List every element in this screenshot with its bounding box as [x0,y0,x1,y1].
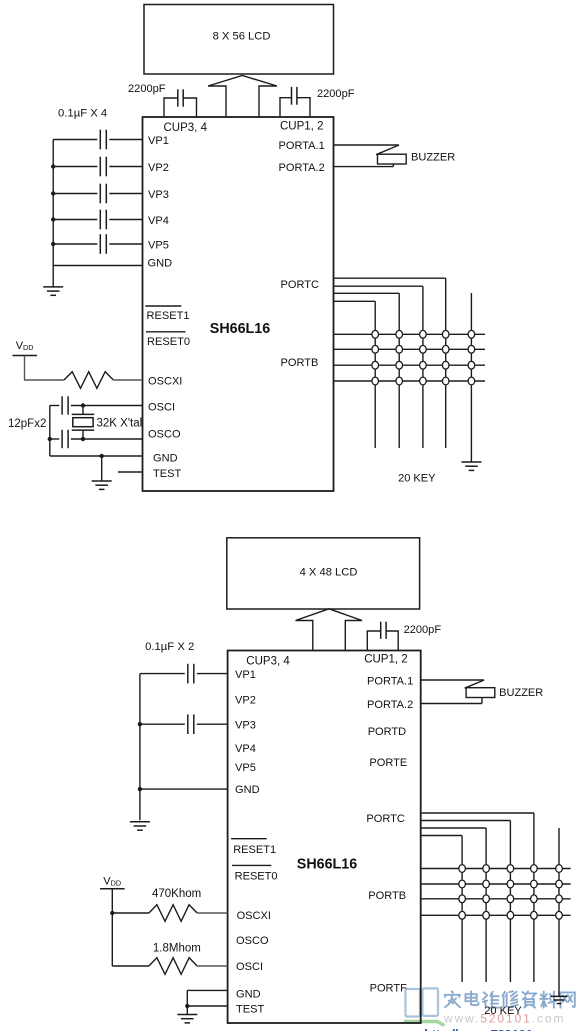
svg-text:1.8Mhom: 1.8Mhom [153,943,201,955]
svg-text:PORTA.1: PORTA.1 [279,140,325,152]
svg-text:4 X 48 LCD: 4 X 48 LCD [300,567,358,579]
svg-text:CUP3, 4: CUP3, 4 [164,122,208,134]
svg-text:RESET1: RESET1 [147,310,190,322]
svg-text:PORTA.2: PORTA.2 [279,162,325,174]
svg-text:470Khom: 470Khom [152,888,201,900]
svg-text:PORTC: PORTC [366,813,404,825]
svg-text:TEST: TEST [153,468,181,480]
svg-text:PORTA.2: PORTA.2 [367,699,413,711]
svg-text:2200pF: 2200pF [317,88,355,100]
svg-text:VP1: VP1 [235,669,256,681]
svg-text:BUZZER: BUZZER [499,687,543,699]
svg-text:OSCI: OSCI [148,402,175,414]
svg-text:GND: GND [153,453,178,465]
svg-text:GND: GND [236,989,261,1001]
svg-text:2200pF: 2200pF [404,624,442,636]
svg-text:20 KEY: 20 KEY [398,473,436,485]
svg-text:GND: GND [235,784,260,796]
svg-text:OSCO: OSCO [236,935,269,947]
svg-text:CUP1, 2: CUP1, 2 [280,121,323,133]
svg-text:OSCI: OSCI [236,961,263,973]
svg-text:12pFx2: 12pFx2 [8,418,46,430]
svg-text:0.1µF X 4: 0.1µF X 4 [58,108,107,120]
svg-text:8 X 56 LCD: 8 X 56 LCD [213,31,271,43]
svg-text:SH66L16: SH66L16 [297,857,357,873]
svg-text:PORTE: PORTE [369,757,407,769]
svg-text:TEST: TEST [236,1004,264,1016]
svg-text:0.1µF X 2: 0.1µF X 2 [145,641,194,653]
svg-text:20 KEY: 20 KEY [484,1005,522,1017]
svg-text:OSCO: OSCO [148,429,181,441]
svg-text:VP3: VP3 [235,720,256,732]
svg-text:CUP1, 2: CUP1, 2 [364,654,407,666]
svg-text:VP4: VP4 [235,743,256,755]
svg-text:VP2: VP2 [148,162,169,174]
svg-text:VP3: VP3 [148,189,169,201]
svg-text:VP5: VP5 [235,762,256,774]
svg-text:RESET0: RESET0 [147,336,190,348]
svg-text:PORTB: PORTB [368,890,406,902]
svg-text:RESET0: RESET0 [235,871,278,883]
svg-text:RESET1: RESET1 [233,844,276,856]
svg-text:VP4: VP4 [148,215,169,227]
svg-text:CUP3, 4: CUP3, 4 [246,655,290,667]
svg-text:VP5: VP5 [148,240,169,252]
svg-text:PORTB: PORTB [281,357,319,369]
svg-text:BUZZER: BUZZER [411,152,455,164]
svg-text:VP2: VP2 [235,695,256,707]
svg-text:GND: GND [148,258,173,270]
svg-text:PORTF: PORTF [370,982,407,994]
svg-text:PORTC: PORTC [281,279,319,291]
svg-text:VP1: VP1 [148,135,169,147]
svg-text:OSCXI: OSCXI [148,376,182,388]
svg-text:PORTA.1: PORTA.1 [367,676,413,688]
svg-text:32K X'tal: 32K X'tal [97,418,143,430]
svg-text:PORTD: PORTD [368,726,406,738]
svg-text:OSCXI: OSCXI [237,910,271,922]
svg-text:SH66L16: SH66L16 [210,321,270,337]
svg-text:2200pF: 2200pF [128,83,166,95]
